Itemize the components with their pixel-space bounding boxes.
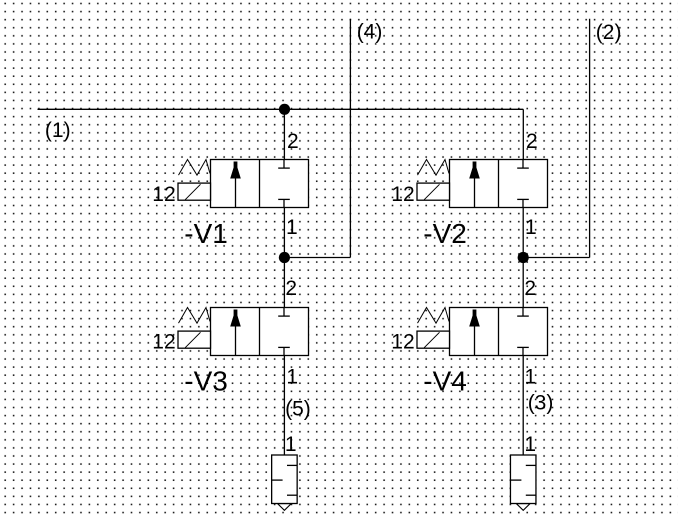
valve -V3 blocked port (bottom T) (278, 347, 290, 355)
svg-text:12: 12 (391, 183, 414, 206)
svg-text:1: 1 (286, 216, 298, 239)
valve -V4 body (450, 308, 548, 356)
wire: V4 port 1 net (3) to silencer (522, 356, 524, 456)
valve -V3 solenoid coil (178, 331, 211, 348)
silencer at net (5) (272, 455, 298, 510)
valve -V2 flow arrow (469, 162, 480, 208)
svg-text:(3): (3) (528, 391, 554, 414)
valve -V1 blocked port (bottom T) (278, 199, 290, 207)
valve -V2 solenoid coil (417, 183, 450, 200)
valve -V4 flow arrow (469, 310, 480, 356)
junction node between V1 and V3 (279, 252, 290, 263)
wire: V2 port 1 to node (522, 208, 524, 258)
svg-text:2: 2 (526, 130, 538, 153)
valve -V2 return spring (418, 160, 450, 176)
wire: node to V3 port 2 (283, 258, 285, 308)
wire: supply corner down to V2 port 2 (522, 109, 524, 159)
svg-text:-V1: -V1 (184, 218, 228, 249)
valve -V1 return spring (179, 160, 211, 176)
svg-text:(4): (4) (357, 20, 383, 43)
svg-text:1: 1 (285, 433, 297, 456)
valve -V2 blocked port (bottom T) (517, 199, 529, 207)
valve -V2 blocked port (top T) (517, 160, 529, 169)
valve -V2 body (450, 160, 548, 208)
svg-text:(5): (5) (285, 398, 311, 421)
svg-text:1: 1 (525, 216, 537, 239)
silencer at net (3) (510, 455, 536, 510)
valve -V4 blocked port (bottom T) (517, 347, 529, 355)
valve -V4 blocked port (top T) (517, 308, 529, 317)
svg-text:12: 12 (152, 330, 175, 353)
wire: net (2) horizontal to node between V2/V4 (523, 257, 589, 259)
svg-text:2: 2 (287, 130, 299, 153)
svg-text:-V2: -V2 (423, 218, 467, 249)
svg-text:1: 1 (525, 366, 537, 389)
valve -V3 blocked port (top T) (278, 308, 290, 317)
valve -V1 body (211, 160, 309, 208)
wire: net (4) vertical (349, 19, 351, 258)
svg-text:-V4: -V4 (423, 366, 467, 397)
wire: supply line net (1) horizontal (38, 108, 524, 110)
svg-text:(2): (2) (596, 21, 622, 44)
valve -V1 flow arrow (230, 162, 241, 208)
junction node on supply line (279, 104, 290, 115)
valve -V4 solenoid coil (417, 331, 450, 348)
svg-text:-V3: -V3 (184, 366, 228, 397)
wire: V3 port 1 net (5) to silencer (283, 356, 285, 456)
svg-text:1: 1 (524, 433, 536, 456)
junction node between V2 and V4 (518, 252, 529, 263)
svg-text:12: 12 (152, 183, 175, 206)
svg-text:2: 2 (524, 277, 536, 300)
valve -V3 return spring (179, 308, 211, 324)
valve -V3 body (211, 308, 309, 356)
svg-text:2: 2 (285, 277, 297, 300)
valve -V3 flow arrow (230, 310, 241, 356)
wire: net (2) vertical (589, 19, 591, 258)
wire: node to V4 port 2 (522, 258, 524, 308)
wire: V1 port 1 to node (283, 208, 285, 258)
svg-text:(1): (1) (45, 119, 71, 142)
valve -V1 solenoid coil (178, 183, 211, 200)
valve -V1 blocked port (top T) (278, 160, 290, 169)
wire: net (4) horizontal to node between V1/V3 (284, 257, 350, 259)
svg-text:1: 1 (286, 366, 298, 389)
valve -V4 return spring (418, 308, 450, 324)
wire: V1 port 2 drop from supply (283, 109, 285, 159)
svg-text:12: 12 (391, 330, 414, 353)
